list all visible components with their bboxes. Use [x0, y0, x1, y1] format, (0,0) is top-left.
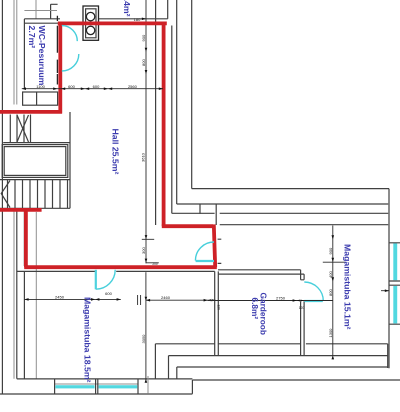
hall niche line: [155, 0, 157, 225]
bedroom south wall inner face: [17, 378, 193, 380]
svg-text:120: 120: [216, 305, 220, 311]
WC north wall outer / dim line: [24, 18, 167, 20]
dim line top (1100/600/600/2560): [22, 88, 163, 90]
bedroom vertical dim: [145, 272, 147, 380]
svg-text:3610: 3610: [141, 152, 146, 162]
svg-text:2450: 2450: [55, 294, 65, 299]
svg-text:Magamistuba 18.5m²: Magamistuba 18.5m²: [82, 297, 92, 383]
upper right room west wall lines: [171, 26, 173, 214]
south window glass 1: [55, 385, 94, 388]
svg-text:WC-Pesuruum: WC-Pesuruum: [37, 26, 47, 86]
svg-text:900: 900: [328, 247, 333, 254]
garderoob north wall: [218, 270, 304, 274]
WC west inner face: [23, 19, 25, 88]
svg-text:2750: 2750: [276, 295, 286, 300]
corridor niche jamb: [199, 204, 201, 214]
red wall south horizontal: [24, 265, 217, 269]
hall east door arc: [195, 242, 214, 261]
stairs upper flight bottom line: [3, 142, 70, 144]
garderoob door arc: [304, 282, 323, 301]
east wall inner face: [388, 189, 390, 369]
svg-text:Magamistuba 15.1m²: Magamistuba 15.1m²: [343, 244, 353, 330]
hall south door leaf: [95, 270, 97, 290]
red wall west vertical: [58, 22, 62, 114]
hall south door arc: [96, 270, 115, 289]
svg-text:600: 600: [93, 84, 100, 89]
svg-text:2.7m²: 2.7m²: [27, 26, 37, 49]
wall line under red south wall: [17, 270, 215, 272]
window frame line: [55, 383, 138, 385]
bottom rooms south wall line2: [169, 355, 388, 357]
east window glass 2: [393, 286, 397, 323]
svg-text:2560: 2560: [128, 84, 138, 89]
corridor north wall line: [172, 212, 388, 214]
garderoob door leaf: [304, 300, 323, 302]
window mullions: [55, 379, 138, 394]
upper right room wall line mid: [177, 203, 389, 205]
svg-text:180: 180: [134, 17, 141, 22]
bedroom/garderoob dividing wall: [215, 271, 219, 355]
stairs landing inner: [4, 147, 66, 176]
west wall inner lines bottom: [13, 211, 15, 379]
wall line beside red stairs-bottom: [23, 212, 25, 267]
red wall mid horizontal: [162, 224, 213, 228]
svg-text:600: 600: [68, 84, 75, 89]
stairs lower flight boundaries: [0, 180, 70, 209]
bedroom horizontal dim: [146, 299, 216, 301]
WC north wall inner: [25, 22, 58, 24]
step verticals: [155, 344, 176, 379]
niche line above WC: [35, 0, 37, 19]
south outer face west: [0, 393, 192, 395]
upper right room inner south wall: [192, 188, 389, 190]
south window glass 2: [99, 385, 138, 388]
svg-text:900: 900: [141, 34, 146, 41]
WC shelf line: [24, 10, 57, 12]
bottom rooms south wall line3: [177, 366, 388, 368]
red wall stairs horizontal: [0, 110, 62, 114]
stairs lower arrow chevron: [1, 181, 10, 208]
stairs break X symbol: [17, 115, 29, 142]
red wall west-south vertical: [24, 210, 28, 267]
top wall short line: [167, 0, 169, 19]
svg-text:200: 200: [152, 262, 158, 266]
svg-text:3050: 3050: [141, 334, 146, 344]
svg-text:600: 600: [105, 291, 112, 296]
red wall door vertical: [214, 224, 215, 267]
garderoob door north jamb: [301, 270, 305, 280]
east window glass 1: [393, 243, 397, 280]
washer unit inner: [86, 9, 96, 38]
corridor north wall inner line: [220, 224, 389, 226]
WC door leaf lines: [56, 16, 58, 85]
stairs lower treads: [8, 180, 68, 209]
svg-text:6.8m²: 6.8m²: [250, 298, 260, 320]
WC cabinet: [23, 92, 58, 105]
svg-text:400: 400: [328, 271, 333, 278]
red wall east vertical: [162, 22, 166, 227]
svg-text:Hall 25.5m²: Hall 25.5m²: [111, 129, 121, 175]
stairs landing outer: [2, 145, 68, 178]
washer drum circles: [86, 12, 94, 20]
hall inner vertical dim line: [145, 0, 147, 263]
stairs right boundary: [69, 112, 71, 208]
bedroom west inner lines: [23, 272, 25, 379]
svg-text:2460: 2460: [161, 295, 171, 300]
east window jambs: [389, 243, 400, 324]
hall east door leaf: [196, 260, 214, 262]
svg-text:11.4m²: 11.4m²: [122, 0, 132, 17]
wall cap at hall door: [215, 204, 217, 225]
svg-text:120: 120: [299, 306, 305, 310]
WC door arc upper: [62, 26, 78, 41]
svg-text:300: 300: [141, 247, 146, 254]
door jamb lines at hall east door: [218, 239, 222, 263]
M15 vertical dim: [332, 226, 334, 356]
east cap of south wall: [387, 344, 389, 368]
garderoob east wall below door: [301, 301, 305, 355]
south outer face east: [192, 379, 400, 381]
hall vertical dim ticks: [145, 48, 148, 263]
svg-text:800: 800: [141, 59, 146, 66]
WC door arc lower: [62, 54, 79, 71]
svg-text:1300: 1300: [328, 328, 333, 338]
bottom rooms south wall line1: [155, 343, 387, 345]
west wall inner lines top: [14, 0, 17, 105]
corridor dim line: [208, 300, 333, 302]
step in south outer face: [191, 380, 193, 394]
svg-text:800: 800: [328, 289, 333, 296]
west bottom dim (2450/600): [24, 298, 120, 300]
red wall stairs-bottom horizontal: [0, 208, 42, 212]
niche line top center: [51, 4, 58, 19]
red wall top horizontal: [58, 21, 167, 25]
west exterior wall outer line: [1, 0, 3, 394]
washer unit outer: [83, 6, 99, 40]
stairs upper treads: [10, 115, 30, 143]
